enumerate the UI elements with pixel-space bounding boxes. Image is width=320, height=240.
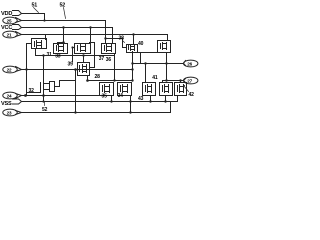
node dot net23 x130: [129, 111, 131, 113]
transistor Q38: [75, 44, 91, 54]
wire Q42 drain stem: [180, 81, 182, 83]
node dot net22 x132.5: [131, 68, 133, 70]
node dot net23 x75: [74, 111, 76, 113]
wire net22 row: [22, 69, 133, 71]
wire Q32 output jog: [55, 81, 76, 87]
transistor Q34: [102, 44, 116, 54]
wire Q31 source stem: [36, 49, 44, 56]
wire drain bus node28: [88, 80, 133, 82]
wire Q39 drain stem up: [83, 56, 85, 63]
label 51: [32, 2, 39, 12]
node dot Q38 gate: [71, 46, 73, 48]
node dot out27 x166.5: [165, 79, 167, 81]
wire node40 drop to out26 wire: [140, 53, 142, 64]
wire Q36 source down long: [132, 52, 134, 81]
wire Q40 drain stem: [162, 81, 164, 83]
svg-text:24: 24: [7, 93, 12, 98]
wire Q31 drain stub: [45, 35, 47, 40]
svg-text:40: 40: [138, 41, 144, 47]
wire VSS bus: [22, 96, 178, 102]
wire Q35 source down to out26: [166, 53, 168, 81]
wire net21 corner down to Q35: [167, 35, 169, 41]
wire VCC row: [22, 27, 113, 29]
wire vertical x43.5 down to VSS: [43, 56, 45, 81]
svg-text:23: 23: [7, 110, 12, 115]
svg-text:37: 37: [99, 56, 105, 62]
terminal oval 21: [3, 31, 22, 38]
wire Q31 gate to node22 vertical: [27, 43, 32, 45]
node dot net25 split: [104, 37, 106, 39]
node dot VSS x150: [149, 100, 151, 102]
terminal oval 25: [3, 17, 22, 24]
node dot x132.5 y80.5: [131, 79, 133, 81]
svg-text:26: 26: [187, 61, 192, 66]
terminal VDD flag: [1, 11, 22, 18]
wire VDD corner down: [44, 14, 46, 21]
svg-text:28: 28: [95, 74, 101, 80]
transistor Q43: [143, 83, 156, 96]
node dot VCC x90: [89, 26, 91, 28]
terminal oval 22: [3, 66, 22, 73]
node dot VSS x43: [42, 100, 44, 102]
svg-text:VSS: VSS: [1, 101, 12, 107]
svg-text:51: 51: [32, 2, 38, 8]
wire vertical net22 x26: [26, 44, 28, 96]
svg-text:VDD: VDD: [1, 11, 12, 17]
wire Q34 source down long: [114, 54, 116, 81]
terminal oval 23: [3, 109, 22, 116]
terminal VCC flag: [1, 25, 22, 32]
wire Q33 drain jog: [58, 43, 64, 45]
node dot VSS x165: [164, 100, 166, 102]
wire Q41 source stem: [111, 96, 113, 102]
node dot VSS x111.6: [110, 100, 112, 102]
node dot 43.5,55.5: [42, 54, 44, 56]
node dot out26 x166.5: [165, 62, 167, 64]
wire vertical x75 net22 gate line: [75, 70, 77, 113]
svg-text:33: 33: [55, 53, 61, 59]
transistor Q41: [100, 83, 114, 96]
terminal oval 24: [3, 92, 22, 99]
node dot net A x83.5: [82, 54, 84, 56]
node dot net24 x43.8: [42, 94, 45, 97]
wire vertical x72 gate down: [72, 48, 74, 62]
wire VDD horizontal: [22, 13, 45, 15]
node dot x114.8 y80.5: [113, 79, 115, 81]
svg-text:21: 21: [7, 32, 12, 37]
wire node A horizontal y55.5: [44, 55, 115, 57]
wire Q32 gate left to net22: [27, 91, 41, 93]
wire net25 branch right: [106, 39, 127, 48]
node dot VCC x63: [62, 26, 64, 28]
transistor Q33: [54, 44, 68, 54]
svg-text:34: 34: [118, 93, 124, 99]
wire net21 row: [22, 34, 168, 36]
svg-text:25: 25: [7, 18, 12, 23]
transistor Q36: [127, 45, 138, 53]
wire net21 drop to Q36: [133, 35, 135, 45]
wire drop to Q43 drain: [145, 64, 147, 83]
wire Q38 output to Q39: [90, 43, 95, 68]
transistor Q44: [118, 83, 132, 96]
wire Q40 source stem: [165, 96, 167, 102]
transistor Q35: [158, 41, 171, 53]
node dot out26 x132.5: [131, 62, 133, 64]
wire Q43 source stem: [150, 96, 152, 102]
node dot x87.7 y80.5: [86, 79, 89, 82]
wire Q44 source stem: [130, 96, 132, 113]
node dot out26 x145.5: [144, 62, 146, 64]
svg-text:32: 32: [29, 88, 35, 94]
node dot net24 x25.7: [24, 94, 27, 97]
terminal oval 26: [184, 60, 198, 67]
transistor Q32: [41, 81, 55, 92]
wire net23 row: [22, 103, 171, 113]
transistor Q40: [160, 83, 173, 96]
label 42 with arrow: [183, 85, 194, 98]
svg-text:35: 35: [102, 94, 108, 100]
svg-text:27: 27: [187, 78, 192, 83]
svg-text:39: 39: [68, 62, 74, 68]
transistor Q39: [78, 63, 90, 76]
svg-text:41: 41: [152, 75, 158, 81]
wire Q39 bottom stem: [87, 76, 89, 81]
node dot net22 x26: [25, 68, 27, 70]
label 52: [60, 2, 66, 18]
node dot out27 x180.5: [179, 79, 181, 81]
wire out27 horizontal: [163, 80, 184, 82]
wire VCC corner down x112: [112, 28, 114, 44]
svg-text:42: 42: [189, 92, 195, 98]
wire out26 horizontal: [133, 63, 184, 65]
node dot net21 x133.6: [132, 33, 134, 35]
node dot Q33 drain: [62, 41, 65, 44]
wire VCC drop to Q33: [63, 28, 65, 43]
wire net25 row: [22, 20, 106, 22]
wire VCC drop to Q38: [90, 28, 92, 44]
terminal VSS flag: [1, 99, 22, 107]
node dot VDD join: [43, 19, 45, 21]
wire Q32 stem to VSS: [43, 96, 45, 102]
svg-text:52: 52: [60, 2, 66, 8]
wire net25 down at x105: [105, 21, 107, 44]
wire net24 row: [22, 95, 103, 97]
node dot VSS x130: [129, 100, 131, 102]
transistor Q31: [32, 39, 47, 49]
svg-text:22: 22: [7, 67, 12, 72]
svg-text:36: 36: [106, 57, 112, 63]
svg-text:VCC: VCC: [1, 25, 12, 31]
wire Q38 gate stub: [73, 47, 75, 49]
label 52 lower: [42, 102, 48, 114]
terminal oval 27: [184, 77, 198, 84]
svg-text:38: 38: [119, 36, 125, 42]
wire Q32 bottom stem: [43, 92, 45, 96]
node dot net22 x75: [74, 68, 77, 71]
wire node40 horizontal: [137, 52, 158, 54]
transistor Q42: [175, 83, 187, 96]
